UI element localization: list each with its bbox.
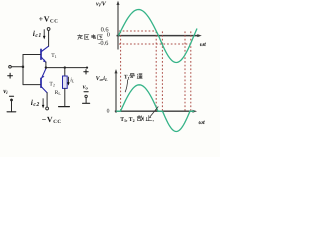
label + input polarity xyxy=(8,73,13,78)
wire T2 collector to -Vcc xyxy=(46,93,48,107)
waveform vo crossover xyxy=(116,85,194,132)
dashed level +0.6 xyxy=(119,30,156,32)
label - input polarity xyxy=(9,95,13,97)
wire base bus vertical xyxy=(22,55,24,85)
svg-text:0: 0 xyxy=(107,32,110,39)
dashed level -0.6 xyxy=(119,43,191,45)
pointer T1 conducting xyxy=(125,80,128,93)
dashed marker x=190.8 xyxy=(190,31,192,110)
pointer T1 T2 cutoff xyxy=(150,107,159,118)
label dead-zone voltage (Chinese) xyxy=(77,34,102,39)
dashed marker x=156.2 xyxy=(155,31,157,110)
node RL junction xyxy=(64,66,66,68)
axis vi y-axis xyxy=(117,1,120,50)
node base junction xyxy=(22,66,24,68)
svg-text:T1, T2: T1, T2 xyxy=(120,117,134,123)
ground input xyxy=(7,111,16,113)
dashed marker x=185.0 xyxy=(184,31,186,110)
ground RL xyxy=(59,106,70,108)
svg-text:-0.6: -0.6 xyxy=(98,40,108,47)
node emitter junction xyxy=(45,66,47,68)
wire RL top xyxy=(64,68,66,76)
ground output xyxy=(83,102,90,104)
axis vo x-axis xyxy=(115,110,197,113)
svg-text:T2: T2 xyxy=(49,81,54,87)
wire T2 base lead xyxy=(23,84,40,86)
dashed marker x=120.6 xyxy=(120,31,122,110)
current arrow ic2 xyxy=(42,99,45,109)
svg-text:ωt: ωt xyxy=(200,41,206,48)
node input terminal xyxy=(9,66,12,69)
svg-text:0: 0 xyxy=(107,109,110,115)
label + output polarity xyxy=(84,70,88,74)
node output terminal xyxy=(86,67,88,69)
transistor T2 xyxy=(41,69,47,93)
label T1 conducting (Chinese) xyxy=(124,74,142,81)
wire input to base junction xyxy=(11,66,23,68)
label - output polarity xyxy=(84,91,88,93)
wire T1 emitter to output node xyxy=(45,62,47,68)
node +Vcc terminal xyxy=(47,28,50,31)
label cutoff period xyxy=(153,120,154,121)
svg-text:iL: iL xyxy=(70,78,75,84)
axis vi x-axis xyxy=(117,34,202,37)
wire to input ground xyxy=(11,101,13,112)
node -Vcc terminal xyxy=(46,107,49,110)
wire Vcc to T1 collector xyxy=(48,31,50,47)
resistor RL xyxy=(63,76,68,88)
wire output rail xyxy=(46,67,87,69)
svg-text:Vo,iL: Vo,iL xyxy=(96,75,108,82)
dashed marker x=162.4 xyxy=(161,31,163,110)
wire RL bottom xyxy=(64,88,66,106)
transistor T1 xyxy=(41,46,48,62)
current arrow ic1 xyxy=(43,30,46,40)
waveform vi sine xyxy=(119,10,198,63)
svg-text:T1: T1 xyxy=(124,75,130,81)
axis vo y-axis xyxy=(115,69,118,113)
node input lower terminal xyxy=(10,99,12,101)
current arrow iL xyxy=(67,77,70,86)
wire T1 base lead xyxy=(23,54,40,56)
label T1 T2 cutoff (Chinese) xyxy=(120,115,151,123)
node output lower terminal xyxy=(85,95,87,97)
svg-text:vi/V: vi/V xyxy=(96,1,107,8)
wire to output ground xyxy=(85,98,87,103)
svg-text:ωt: ωt xyxy=(199,119,205,126)
svg-text:RL: RL xyxy=(55,90,62,96)
svg-text:T1: T1 xyxy=(51,53,56,59)
